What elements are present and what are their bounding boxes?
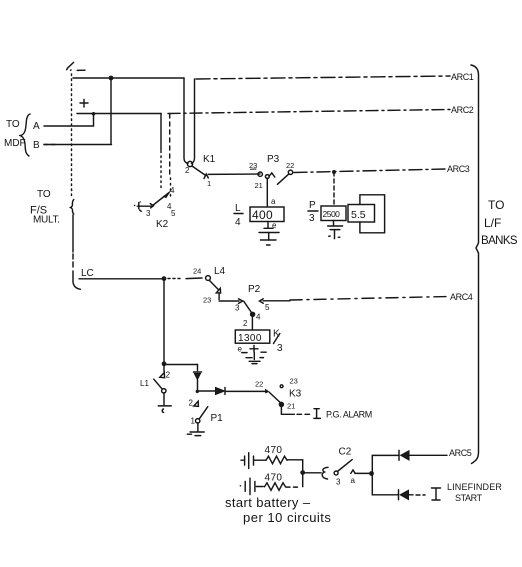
svg-text:K2: K2 xyxy=(156,219,169,230)
svg-text:23: 23 xyxy=(203,296,211,305)
svg-text:24: 24 xyxy=(193,267,201,276)
svg-text:21: 21 xyxy=(255,181,263,190)
svg-text:23: 23 xyxy=(290,377,298,386)
svg-text:1: 1 xyxy=(207,179,211,188)
svg-text:P2: P2 xyxy=(248,284,261,295)
svg-text:2500: 2500 xyxy=(323,209,341,219)
svg-text:MDF: MDF xyxy=(4,138,26,149)
svg-text:5: 5 xyxy=(171,209,176,218)
svg-text:ARC2: ARC2 xyxy=(451,105,474,115)
svg-text:2: 2 xyxy=(185,166,190,175)
svg-text:start battery –: start battery – xyxy=(225,495,311,510)
svg-text:4: 4 xyxy=(235,217,241,228)
svg-text:P1: P1 xyxy=(211,413,224,424)
svg-text:ARC4: ARC4 xyxy=(450,292,473,302)
svg-text:3: 3 xyxy=(336,478,341,487)
svg-text:L/F: L/F xyxy=(484,216,501,230)
svg-text:3: 3 xyxy=(309,213,315,224)
svg-text:P.G. ALARM: P.G. ALARM xyxy=(326,409,372,419)
svg-text:P3: P3 xyxy=(267,154,280,165)
svg-text:K3: K3 xyxy=(289,389,302,400)
svg-text:21: 21 xyxy=(287,402,295,411)
svg-text:a: a xyxy=(271,197,276,206)
svg-text:ARC5: ARC5 xyxy=(449,448,472,458)
svg-text:ARC1: ARC1 xyxy=(451,72,474,82)
svg-text:22: 22 xyxy=(286,161,294,170)
svg-text:3: 3 xyxy=(235,304,240,313)
svg-text:22: 22 xyxy=(255,380,263,389)
svg-text:L4: L4 xyxy=(214,266,226,277)
svg-text:L: L xyxy=(235,203,241,214)
svg-text:2: 2 xyxy=(243,319,248,328)
svg-text:LC: LC xyxy=(81,268,94,279)
svg-text:K1: K1 xyxy=(203,154,216,165)
svg-text:4: 4 xyxy=(170,186,175,195)
svg-text:5.5: 5.5 xyxy=(351,209,366,221)
svg-text:470: 470 xyxy=(265,445,283,456)
svg-text:TO: TO xyxy=(488,198,504,212)
svg-text:TO: TO xyxy=(6,119,20,130)
svg-text:MULT.: MULT. xyxy=(33,215,60,226)
svg-text:1300: 1300 xyxy=(238,333,262,344)
svg-text:TO: TO xyxy=(37,189,51,200)
svg-text:5: 5 xyxy=(265,303,270,312)
svg-text:A: A xyxy=(33,121,40,132)
svg-text:2: 2 xyxy=(166,371,171,380)
svg-text:a: a xyxy=(351,476,356,485)
svg-text:BANKS: BANKS xyxy=(481,235,518,247)
svg-text:B: B xyxy=(33,140,40,151)
svg-text:ARC3: ARC3 xyxy=(447,164,470,174)
svg-text:3: 3 xyxy=(277,343,283,354)
svg-text:C2: C2 xyxy=(339,447,352,458)
svg-text:1: 1 xyxy=(191,417,196,426)
svg-text:e: e xyxy=(272,221,277,230)
svg-text:400: 400 xyxy=(252,208,273,222)
svg-text:3: 3 xyxy=(146,209,151,218)
svg-text:P: P xyxy=(309,200,316,211)
svg-text:per 10 circuits: per 10 circuits xyxy=(243,510,331,525)
svg-text:L1: L1 xyxy=(140,379,149,388)
svg-text:2: 2 xyxy=(189,399,194,408)
svg-text:START: START xyxy=(455,493,483,503)
svg-text:4: 4 xyxy=(256,313,261,322)
svg-text:LINEFINDER: LINEFINDER xyxy=(447,482,502,492)
